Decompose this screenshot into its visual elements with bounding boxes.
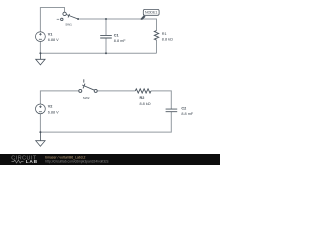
svg-text:NODE1: NODE1 [145, 11, 157, 15]
svg-text:8.8 kΩ: 8.8 kΩ [140, 102, 151, 106]
svg-text:6.88 V: 6.88 V [48, 38, 59, 42]
svg-text:C1: C1 [114, 33, 119, 37]
svg-text:8.8 kΩ: 8.8 kΩ [162, 37, 173, 41]
svg-text:8.8 mF: 8.8 mF [114, 39, 126, 43]
svg-text:SW2: SW2 [83, 96, 90, 100]
svg-text:LAB: LAB [26, 159, 38, 165]
svg-text:V2: V2 [48, 105, 53, 109]
svg-text:http://circuitlab.com/c6mpk3pa: http://circuitlab.com/c6mpk3pan324/volt3… [45, 159, 109, 163]
svg-text:R1: R1 [162, 32, 167, 36]
svg-text:V1: V1 [48, 32, 53, 36]
svg-text:C2: C2 [181, 106, 186, 110]
svg-text:R2: R2 [140, 96, 145, 100]
svg-text:SW1: SW1 [65, 23, 72, 27]
svg-text:6.88 V: 6.88 V [48, 110, 59, 114]
svg-text:8.8 mF: 8.8 mF [181, 112, 193, 116]
